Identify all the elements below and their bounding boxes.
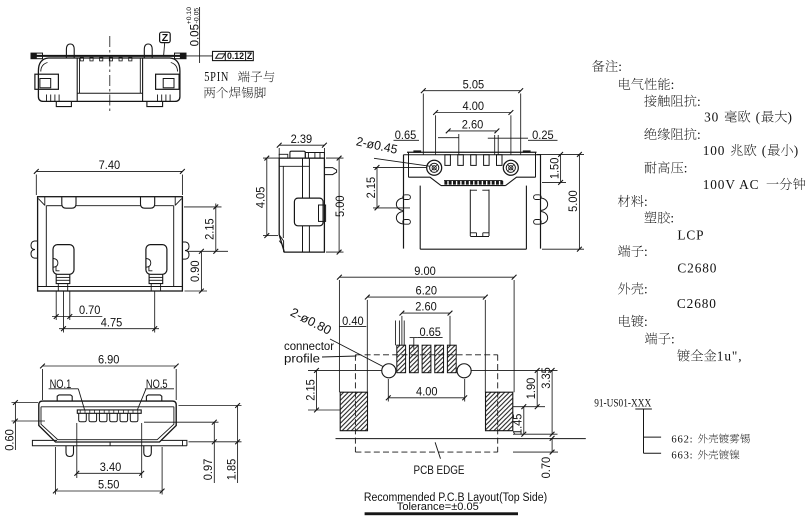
hole left — [382, 364, 396, 378]
svg-text:): ) — [794, 143, 799, 158]
caption underline bar — [365, 512, 518, 515]
shell left wall — [403, 155, 405, 249]
note CJK line1 — [238, 71, 274, 82]
dim 1.85 — [237, 406, 239, 484]
cavity wall right — [142, 58, 144, 101]
base tab right — [161, 440, 187, 445]
contact slots — [445, 155, 451, 166]
svg-text:4.00: 4.00 — [463, 101, 485, 113]
shell outline — [39, 401, 176, 442]
seating-plane lead line — [31, 55, 186, 57]
front shoulder left — [409, 177, 442, 185]
svg-text:3.35: 3.35 — [541, 367, 553, 389]
svg-text:5.50: 5.50 — [98, 480, 120, 492]
dim 2.60 — [402, 312, 450, 314]
bottom tab right — [147, 101, 163, 106]
svg-text:1.50: 1.50 — [549, 158, 561, 180]
mount pad left (hatched) — [340, 392, 367, 431]
dim 4.05 — [266, 158, 268, 236]
bottom serration right — [157, 95, 159, 102]
shell body outline — [38, 58, 180, 101]
mount pad right (hatched) — [486, 392, 513, 431]
svg-text:4.05: 4.05 — [256, 187, 268, 209]
dim 5.05 — [423, 90, 520, 92]
leg lines below necks — [57, 284, 59, 291]
inner corner arcs — [41, 63, 48, 72]
svg-text:): ) — [788, 110, 793, 125]
svg-text:0.70: 0.70 — [541, 457, 553, 479]
datum flag Z — [160, 32, 171, 42]
tongue with contacts — [77, 410, 141, 413]
left wall inner line — [282, 166, 284, 238]
notes column — [592, 59, 623, 74]
body side right — [525, 186, 527, 250]
svg-text:2.60: 2.60 — [415, 302, 437, 314]
dim 6.90 — [43, 365, 177, 367]
terminal hole right — [146, 245, 167, 275]
rear pin — [324, 168, 336, 175]
leader NO.1 — [78, 389, 84, 410]
svg-text:2.60: 2.60 — [462, 120, 484, 132]
leader 0.65 — [413, 338, 415, 349]
svg-text:7.40: 7.40 — [99, 160, 121, 172]
svg-text::: : — [644, 244, 649, 259]
dim 4.75 bottom — [63, 291, 65, 332]
ear block left — [35, 74, 59, 89]
svg-text:1.45: 1.45 — [513, 414, 525, 436]
svg-text:0.60: 0.60 — [4, 429, 16, 451]
dim 3.40 — [76, 423, 78, 478]
connector profile dashed outline — [355, 354, 497, 356]
body bottom — [420, 248, 526, 250]
dim 5.50 — [54, 447, 56, 495]
leader NO.5 — [138, 389, 147, 410]
dim 7.40 — [36, 170, 182, 172]
svg-text:662:: 662: — [671, 435, 693, 446]
dim 2.39 — [279, 144, 324, 146]
rivet left — [427, 160, 442, 175]
dim 9.00 — [339, 276, 514, 278]
ext line 0.70 bottom — [513, 451, 558, 453]
svg-text:0.05: 0.05 — [189, 24, 201, 46]
corner notch left — [44, 197, 46, 206]
svg-text:C2680: C2680 — [677, 296, 717, 311]
body outline — [279, 158, 324, 252]
dim 4.00 holes — [387, 379, 389, 402]
leader 0.25 — [488, 137, 528, 139]
dim 4.00 — [436, 112, 511, 114]
dim 2.15 left — [316, 370, 318, 410]
svg-text:1u",: 1u", — [717, 349, 743, 364]
dim 2.15 shell — [376, 167, 378, 208]
channel below lug — [302, 226, 304, 252]
terminal vertical channel — [302, 158, 304, 198]
svg-text:(: ( — [762, 143, 767, 158]
lead end cap left — [31, 53, 43, 59]
rivet right — [503, 160, 518, 175]
svg-text:5.05: 5.05 — [463, 79, 485, 91]
inner walls — [45, 206, 47, 287]
svg-text::: : — [644, 194, 649, 209]
hole detail right — [146, 259, 151, 268]
leader 0.65 — [438, 137, 459, 139]
dim 5.00 right — [578, 154, 580, 249]
corner notch right — [174, 197, 176, 206]
top right block — [305, 153, 324, 159]
option 662 — [671, 434, 750, 446]
svg-text:91-US01-XXX: 91-US01-XXX — [594, 397, 651, 410]
svg-text:LCP: LCP — [677, 228, 704, 243]
leader 0.40 — [395, 321, 397, 346]
svg-text:profile: profile — [284, 354, 320, 366]
solder lug box — [294, 198, 323, 226]
lead end cap right — [175, 53, 187, 59]
side leg right — [182, 242, 189, 259]
U-notch right — [141, 197, 155, 209]
ear block right — [156, 74, 180, 89]
terminal slot marks on top edge — [80, 57, 83, 61]
flatness feature control frame — [186, 55, 213, 57]
svg-text:PCB EDGE: PCB EDGE — [414, 465, 465, 477]
shell inner line — [41, 406, 174, 408]
svg-text:0.90: 0.90 — [190, 260, 202, 282]
dim 6.20 — [367, 296, 485, 298]
dim 2.15 right — [215, 204, 217, 252]
body outline — [38, 197, 183, 291]
svg-text:4.75: 4.75 — [101, 317, 123, 329]
svg-text:connector: connector — [284, 341, 334, 353]
center slot — [469, 190, 471, 237]
cavity floor — [77, 92, 142, 94]
svg-text:6.20: 6.20 — [416, 286, 438, 298]
top bump right — [146, 395, 161, 401]
side leg right — [541, 198, 548, 211]
svg-text:0.12: 0.12 — [227, 51, 244, 61]
dim 3.35 — [551, 370, 553, 434]
view 4: side view — [256, 134, 348, 255]
svg-text:100V AC: 100V AC — [703, 177, 760, 192]
hole detail left — [53, 259, 58, 268]
svg-text:1.85: 1.85 — [226, 459, 238, 481]
solder neck left — [56, 274, 70, 283]
svg-text:0.97: 0.97 — [203, 459, 215, 481]
part number underline — [635, 408, 652, 410]
body side left — [419, 186, 421, 250]
option tree — [643, 409, 645, 453]
side leg left — [31, 241, 38, 258]
svg-text:2.15: 2.15 — [205, 218, 217, 240]
cavity wall left — [76, 58, 78, 101]
hole right — [457, 364, 471, 378]
svg-text:100: 100 — [703, 143, 726, 158]
dimension 0.05 tolerance — [199, 7, 201, 63]
svg-text:5PIN: 5PIN — [204, 69, 229, 84]
top bump left — [57, 395, 72, 401]
svg-text:0.70: 0.70 — [79, 305, 101, 317]
bottom tab left — [56, 101, 71, 106]
top cap tab — [290, 151, 305, 158]
leader 2-dia0.80 — [330, 339, 383, 367]
svg-text:Z: Z — [247, 51, 253, 61]
top inner line — [279, 165, 309, 167]
side leg left — [396, 198, 403, 211]
svg-text::: : — [684, 161, 689, 176]
solder neck right — [149, 274, 163, 283]
svg-text::: : — [697, 94, 702, 109]
dim 2.60 — [448, 130, 497, 132]
svg-text::: : — [697, 127, 702, 142]
leader connector profile — [322, 356, 357, 357]
view 3: front view — [4, 355, 241, 495]
shell right wall — [540, 155, 542, 249]
base tab left — [32, 440, 187, 445]
pad row (hatched) — [397, 345, 406, 373]
svg-text:5.00: 5.00 — [568, 190, 580, 212]
dim 0.90 right — [200, 251, 202, 291]
svg-text:2.39: 2.39 — [291, 134, 313, 146]
leader 2-dia0.45 — [374, 158, 430, 166]
svg-text::: : — [644, 314, 649, 329]
top inner edge — [46, 205, 62, 207]
svg-text:2.15: 2.15 — [366, 177, 378, 199]
dim 1.45 — [523, 407, 525, 435]
end caps — [414, 151, 421, 153]
top left cap — [279, 154, 288, 158]
svg-text:+0.10: +0.10 — [186, 7, 193, 24]
svg-text:Tolerance=±0.05: Tolerance=±0.05 — [397, 501, 479, 513]
datum leader — [164, 43, 165, 56]
dim 1.90 — [536, 370, 538, 406]
view 2: top view — [31, 160, 228, 333]
PCB edge line — [336, 438, 586, 440]
dim 5.00 — [338, 158, 340, 252]
svg-text:(: ( — [756, 110, 761, 125]
mount leg left — [66, 446, 74, 457]
svg-text:6.90: 6.90 — [98, 355, 120, 367]
svg-text:30: 30 — [704, 110, 719, 125]
dim 0.70 bottom — [55, 291, 57, 320]
svg-text:9.00: 9.00 — [414, 266, 436, 278]
dim 0.70 — [551, 438, 553, 452]
svg-text:-0.05: -0.05 — [193, 8, 200, 24]
center mark — [109, 442, 111, 446]
svg-text:1.90: 1.90 — [526, 378, 538, 400]
mount leg right — [144, 446, 152, 457]
label PCB EDGE — [435, 442, 440, 458]
view 5: shell top view — [355, 79, 584, 251]
svg-text:3.40: 3.40 — [100, 462, 122, 474]
vertical centerline — [109, 36, 111, 114]
solder pin bump left — [66, 44, 74, 58]
serrated front band — [441, 185, 506, 187]
note CJK line2 — [204, 87, 266, 99]
svg-text::: : — [670, 211, 675, 226]
terminal hole left — [53, 245, 74, 275]
svg-text:663:: 663: — [671, 451, 693, 462]
dim 1.50 — [560, 154, 562, 182]
view 1: connector rear view — [31, 7, 253, 114]
shell top edge — [407, 151, 537, 153]
solder pin bump right — [144, 44, 152, 58]
svg-text:2.15: 2.15 — [305, 379, 317, 401]
svg-text:Z: Z — [162, 32, 169, 44]
svg-text::: : — [644, 282, 649, 297]
svg-text::: : — [671, 77, 676, 92]
dim 0.97 — [213, 422, 215, 483]
front shoulder right — [506, 177, 536, 185]
svg-text:4.00: 4.00 — [416, 386, 438, 398]
U-notch left — [62, 197, 76, 209]
svg-text::: : — [618, 59, 623, 74]
dim 0.60 — [14, 403, 16, 451]
view 6: recommended PCB layout — [284, 266, 586, 515]
foot chamfer — [279, 235, 283, 252]
svg-text::: : — [671, 332, 676, 347]
svg-text:C2680: C2680 — [677, 261, 717, 276]
svg-text:5.00: 5.00 — [335, 195, 347, 217]
bottom serration left — [46, 95, 48, 102]
bottom inner edge — [38, 286, 183, 288]
option 663 — [671, 450, 739, 462]
lug side plate — [319, 205, 326, 221]
